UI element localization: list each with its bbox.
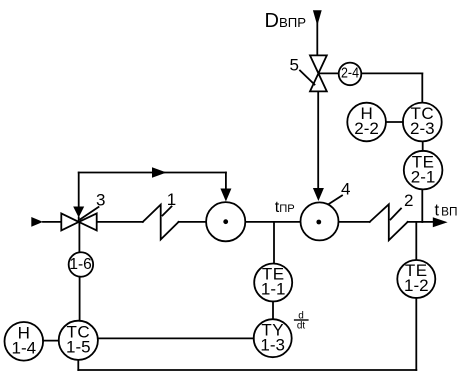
svg-text:1-6: 1-6	[69, 256, 91, 273]
svg-text:1-4: 1-4	[12, 339, 37, 358]
svg-text:1-1: 1-1	[261, 280, 286, 299]
svg-text:dt: dt	[297, 321, 306, 332]
svg-text:1-5: 1-5	[66, 338, 91, 357]
svg-text:2-1: 2-1	[411, 167, 436, 186]
svg-text:1-2: 1-2	[404, 276, 429, 295]
svg-text:2-3: 2-3	[410, 119, 435, 138]
svg-text:2: 2	[404, 191, 413, 210]
svg-text:3: 3	[96, 191, 105, 210]
svg-text:5: 5	[290, 56, 299, 75]
svg-text:1-3: 1-3	[260, 335, 285, 354]
svg-text:4: 4	[341, 180, 350, 199]
svg-text:2-4: 2-4	[341, 66, 359, 82]
svg-text:2-2: 2-2	[354, 119, 379, 138]
svg-text:tВП: tВП	[435, 202, 458, 220]
svg-text:1: 1	[167, 190, 176, 209]
